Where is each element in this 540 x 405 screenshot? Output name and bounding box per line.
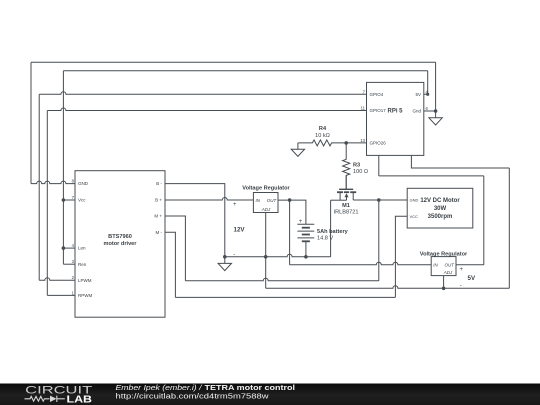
wire M1 source stub link [331, 199, 347, 201]
svg-text:2: 2 [72, 275, 75, 280]
node dot reg1 OUT [288, 198, 292, 202]
wire GPIO26 pin [346, 142, 366, 144]
svg-text:7: 7 [72, 195, 75, 200]
svg-text:M +: M + [154, 214, 162, 219]
svg-text:B -: B - [156, 181, 162, 186]
svg-text:M -: M - [156, 230, 163, 235]
node dot RPi 5V corner [426, 93, 429, 96]
svg-text:GND: GND [410, 198, 419, 203]
svg-text:BTS7960: BTS7960 [108, 234, 132, 240]
svg-text:IN: IN [256, 198, 261, 203]
wire 5V top horizontal [63, 70, 427, 72]
wire RPi 5V bottom pin [378, 155, 380, 176]
node dot GPIO26/R4/R3 [344, 141, 348, 145]
svg-text:+: + [460, 267, 464, 273]
svg-text:30W: 30W [434, 206, 447, 212]
node dot Len [62, 246, 66, 250]
wire 5V left vertical [62, 71, 64, 265]
node dot ground rail left [223, 255, 227, 259]
node dot Vcc [62, 198, 66, 202]
wire Ren pin 3 [63, 263, 75, 265]
svg-text:RPWM: RPWM [78, 293, 92, 298]
svg-text:5Ah battery: 5Ah battery [317, 229, 349, 235]
transistor M1 gate lead [345, 175, 347, 189]
wire Vcc pin 7 [63, 199, 75, 201]
ground G2 main [218, 257, 231, 271]
wire 5V feed horizontal [379, 175, 484, 177]
wire RPWM pin 1 [47, 294, 75, 296]
svg-text:12V: 12V [234, 226, 246, 233]
wire ground left vertical [30, 62, 32, 183]
svg-text:4: 4 [72, 243, 75, 248]
wire reg1 OUT branch down [289, 200, 291, 265]
svg-text:7: 7 [363, 89, 366, 94]
wire M1 source down [330, 200, 332, 257]
wire to reg2 IN [290, 262, 432, 265]
svg-text:IRLB8721: IRLB8721 [334, 209, 359, 215]
svg-text:1: 1 [72, 290, 75, 295]
svg-text:100 Ω: 100 Ω [353, 169, 368, 175]
svg-text:R3: R3 [353, 163, 360, 169]
svg-text:Vcc: Vcc [78, 198, 86, 203]
wire M- return horizontal [175, 296, 395, 298]
wire M+ return vertical [378, 200, 380, 281]
wire M- pin [165, 232, 175, 297]
svg-text:Voltage Regulator: Voltage Regulator [420, 251, 468, 257]
footer bar [0, 384, 540, 405]
svg-text:GPIO4: GPIO4 [370, 92, 384, 97]
transistor M1 [337, 189, 356, 200]
wire LPWM pin 2 [39, 278, 75, 281]
pin labels driver left [78, 181, 92, 298]
wire M+ pin [165, 216, 185, 281]
wire GND to motor driver pin 8 [31, 181, 75, 184]
wire reg2 OUT [456, 264, 484, 266]
IC U1 BTS7960 motor driver box [75, 171, 165, 318]
svg-text:8: 8 [72, 179, 75, 184]
svg-text:R4: R4 [319, 126, 327, 132]
pin labels reg2 [433, 263, 455, 275]
wire M- to motor Vcc [395, 216, 407, 297]
svg-text:LPWM: LPWM [78, 278, 92, 283]
wire reg1 OUT to battery top [278, 200, 306, 224]
wire GPIO4 horizontal [39, 92, 366, 95]
svg-text:-: - [460, 284, 462, 290]
svg-text:3500rpm: 3500rpm [428, 214, 453, 220]
svg-text:GPIO17: GPIO17 [370, 108, 387, 113]
regulator VR2 box [431, 257, 456, 276]
pin labels RPi right [412, 92, 421, 114]
svg-text:14.8 V: 14.8 V [317, 236, 333, 242]
ground G1 at RPi [429, 111, 442, 125]
svg-text:M1: M1 [342, 203, 350, 209]
svg-text:GPIO26: GPIO26 [370, 141, 387, 146]
svg-text:GND: GND [78, 181, 89, 186]
svg-text:VCC: VCC [410, 214, 419, 219]
node dot reg2 ADJ [442, 287, 446, 291]
svg-text:6: 6 [426, 106, 429, 111]
svg-text:+: + [299, 219, 303, 225]
pin numbers RPi [360, 89, 428, 143]
svg-text:ADJ: ADJ [443, 270, 453, 275]
svg-text:Gnd: Gnd [412, 109, 421, 114]
svg-text:-: - [233, 252, 235, 258]
wire 5V down to RPi 5V pin [424, 71, 428, 95]
wire GPIO17 horizontal [47, 108, 366, 111]
wire reg2 ADJ down [443, 276, 445, 289]
wire reg1 ADJ down [265, 213, 267, 289]
wire battery bottom lead [305, 241, 307, 256]
wire B+ to regulator IN [165, 198, 253, 201]
wire M1 drain to motor GND [353, 199, 407, 201]
wire B- to ground rail [165, 184, 225, 257]
svg-text:3: 3 [72, 259, 75, 264]
wire RPi gnd bottom pin [411, 155, 509, 168]
wire 5V feed vertical [483, 176, 485, 265]
svg-text:Len: Len [78, 246, 86, 251]
wire ground rail lower [266, 286, 510, 289]
svg-text:B +: B + [155, 198, 162, 203]
wire ground right vertical to RPi Gnd [435, 62, 437, 111]
wire ground top horizontal [31, 61, 436, 63]
svg-text:RPi 5: RPi 5 [387, 108, 403, 114]
node dot drain/motor [377, 198, 381, 202]
svg-text:12V DC Motor: 12V DC Motor [420, 198, 460, 204]
svg-text:13: 13 [360, 138, 365, 143]
svg-text:LAB: LAB [67, 395, 93, 405]
wire Len pin 4 [63, 247, 75, 249]
pin labels reg1 [256, 198, 278, 212]
ground G3 at R4 [291, 143, 304, 157]
pin labels motor [410, 198, 419, 219]
node dot battery bottom [304, 255, 308, 259]
node dot reg1 ADJ [264, 255, 268, 259]
svg-text:OUT: OUT [267, 198, 278, 203]
motor MOT1 box [407, 188, 473, 228]
node dot RPi Gnd [434, 109, 438, 113]
pin numbers driver [72, 179, 75, 296]
wire RPi Gnd pin [424, 110, 436, 112]
resistor R4 [298, 140, 346, 146]
wire ground right vertical [508, 168, 510, 288]
svg-text:Ren: Ren [78, 262, 87, 267]
IC U2 RPi 5 box [367, 82, 424, 155]
svg-text:11: 11 [361, 106, 366, 111]
pin labels RPi left [370, 92, 387, 146]
svg-text:10 kΩ: 10 kΩ [315, 133, 330, 139]
svg-text:http://circuitlab.com/cd4trm5m: http://circuitlab.com/cd4trm5m7588w [116, 392, 270, 401]
svg-text:IN: IN [433, 263, 438, 268]
regulator VR1 box [253, 193, 278, 213]
svg-text:+: + [233, 202, 237, 208]
wire ground rail [225, 254, 331, 257]
svg-text:5V: 5V [415, 92, 421, 97]
pin labels driver right [154, 181, 162, 235]
svg-text:5V: 5V [468, 275, 476, 282]
resistor R3 [343, 143, 350, 189]
wire GPIO17 left vertical [46, 111, 48, 296]
battery BAT1 [297, 224, 314, 241]
svg-text:motor driver: motor driver [104, 241, 138, 247]
wire GPIO4 left vertical [38, 94, 40, 280]
svg-text:OUT: OUT [445, 263, 456, 268]
wire M+ return horizontal [185, 278, 378, 281]
svg-text:ADJ: ADJ [261, 207, 271, 212]
logo wire resistor diode [25, 396, 65, 402]
svg-text:Voltage Regulator: Voltage Regulator [242, 186, 290, 192]
